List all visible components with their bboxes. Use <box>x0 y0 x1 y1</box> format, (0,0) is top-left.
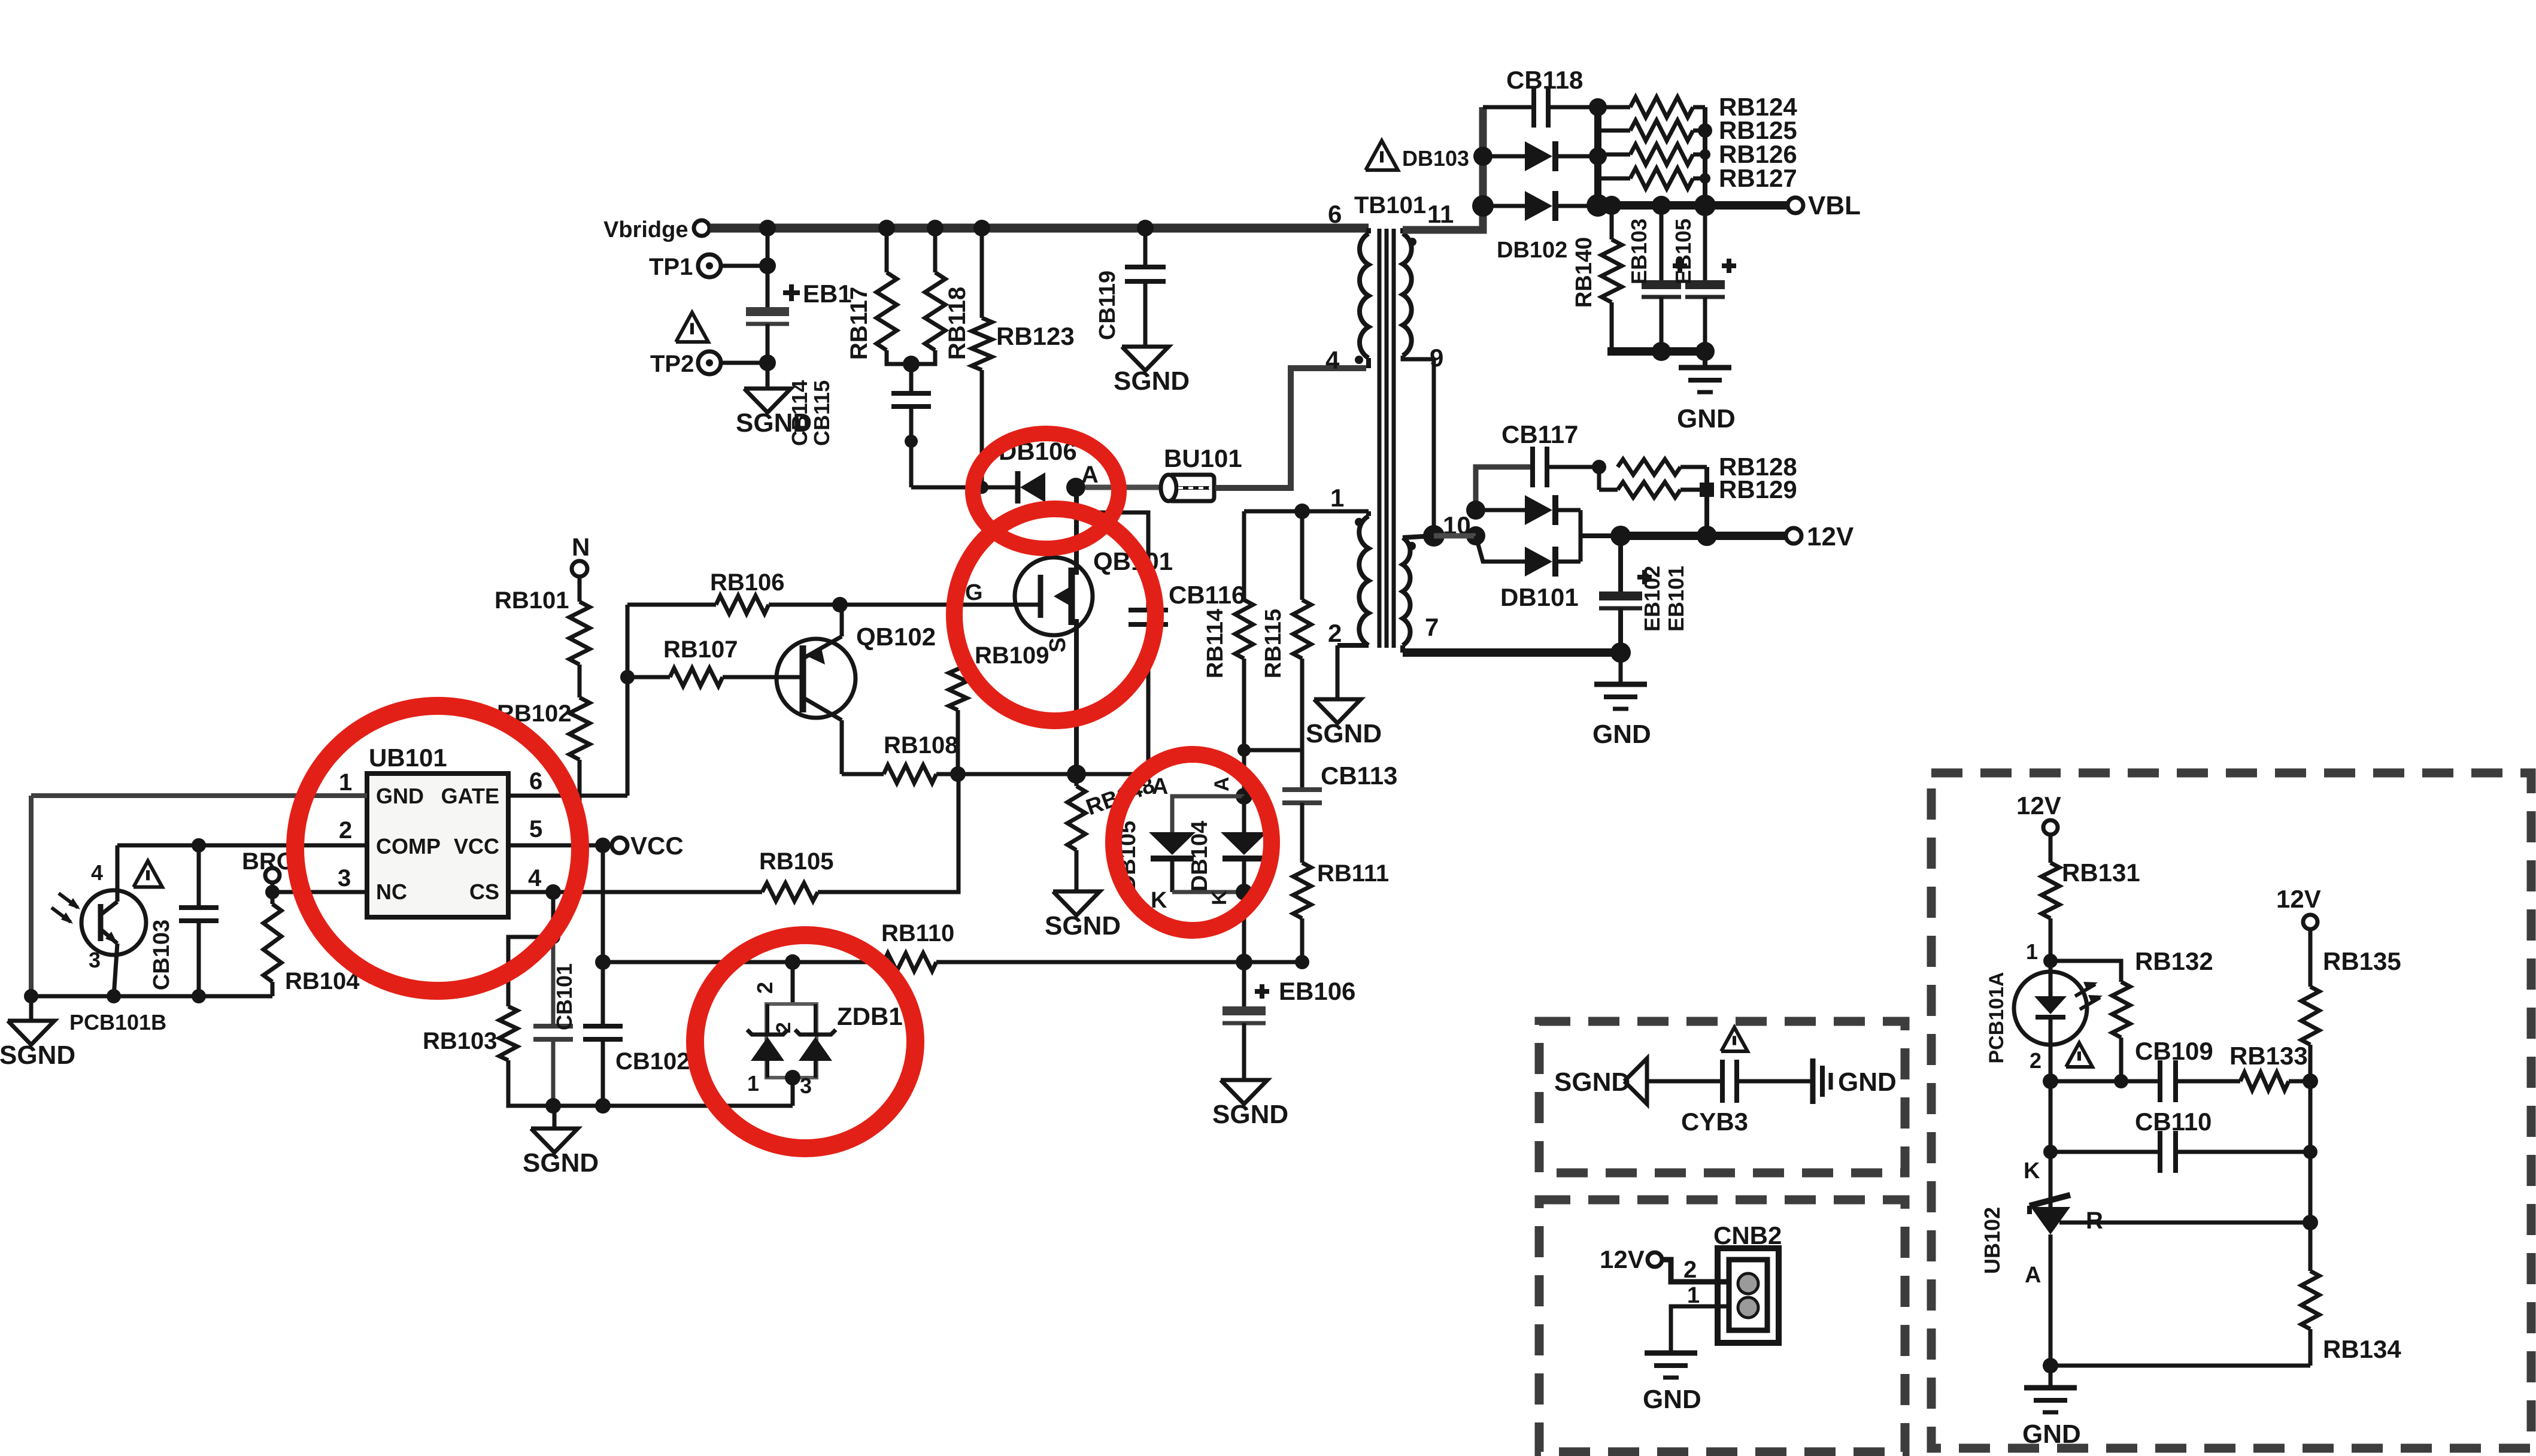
resistor RB126 <box>1598 153 1630 157</box>
wire RB114/115 bottoms <box>1244 748 1302 753</box>
wire pin 2 to SGND <box>1336 645 1340 699</box>
svg-text:NC: NC <box>376 879 407 904</box>
diode DB101 upper <box>1476 508 1525 512</box>
junction PCB101A pin1 <box>2043 954 2058 968</box>
resistor RB128 <box>1618 459 1680 475</box>
capacitor CB103 <box>197 845 201 908</box>
resistor RB132 <box>2050 961 2121 982</box>
svg-text:CS: CS <box>469 879 499 904</box>
svg-text:2: 2 <box>1328 619 1342 647</box>
wire pin 9 to pin 10 node <box>1432 359 1436 536</box>
resistor RB110 <box>603 960 884 964</box>
svg-text:CB119: CB119 <box>1095 271 1120 340</box>
svg-text:1: 1 <box>1330 484 1344 512</box>
wire to CB114/CB115 <box>909 364 914 393</box>
wire main HV bus <box>710 224 1369 233</box>
wire QB101 source <box>1074 619 1079 774</box>
capacitor CB119 <box>1143 228 1148 267</box>
svg-text:DB103: DB103 <box>1402 146 1469 171</box>
svg-text:RB106: RB106 <box>710 569 785 596</box>
junction VCC <box>595 838 611 853</box>
capacitor CB117 <box>1476 467 1533 510</box>
junction DB101 anode a <box>1466 500 1485 520</box>
capacitor CB102 <box>601 962 605 1026</box>
resistor RB102 <box>578 665 582 697</box>
resistor RB103 <box>499 1006 517 1060</box>
junction CB103 bottom <box>192 989 206 1003</box>
wire pin 11 riser <box>1403 107 1483 230</box>
resistor RB107 <box>627 675 670 680</box>
resistor RB104 <box>271 892 275 904</box>
svg-text:EB106: EB106 <box>1279 977 1355 1005</box>
resistor RB109 <box>956 605 960 661</box>
wire VCC rail down <box>601 845 605 962</box>
svg-text:RB132: RB132 <box>2135 947 2213 975</box>
junction RB132 bottom <box>2114 1074 2128 1088</box>
svg-text:GND: GND <box>1677 404 1736 433</box>
ground SGND below RB148 <box>1053 891 1100 915</box>
svg-text:CNB2: CNB2 <box>1713 1221 1782 1249</box>
svg-text:RB127: RB127 <box>1719 164 1797 192</box>
svg-text:K: K <box>2024 1158 2040 1184</box>
svg-text:Vbridge: Vbridge <box>603 217 688 242</box>
junction DB103 anode <box>1473 147 1493 166</box>
junction PCB101A cathode node <box>2043 1073 2058 1089</box>
wire RB124-127 right rail <box>1703 107 1707 205</box>
wire CB115 to DB106 cathode <box>909 407 914 441</box>
node A of DB104 <box>1242 750 1246 796</box>
wire RB110 to EB106 node <box>936 960 1244 964</box>
svg-text:TB101: TB101 <box>1354 192 1426 219</box>
junction feedback ground <box>2043 1358 2058 1373</box>
svg-text:SGND: SGND <box>1554 1067 1630 1097</box>
mosfet QB101 (N-channel) <box>1015 557 1093 635</box>
svg-text:RB107: RB107 <box>663 636 738 663</box>
junction CB101 bottom <box>545 1098 561 1114</box>
svg-text:RB103: RB103 <box>423 1028 498 1054</box>
svg-text:EB1: EB1 <box>803 280 852 308</box>
svg-text:RB133: RB133 <box>2229 1042 2308 1070</box>
junction RB117/RB118 bottom <box>903 356 920 372</box>
warning triangle PCB101A <box>2066 1043 2092 1067</box>
ground GND below EB105 <box>1703 351 1707 368</box>
svg-text:K: K <box>1208 890 1231 905</box>
junction BRO <box>265 885 280 899</box>
red highlight circle around QB101 <box>954 509 1155 721</box>
svg-text:DB104: DB104 <box>1187 821 1212 891</box>
resistor RB131 <box>2049 835 2053 863</box>
svg-text:A: A <box>1211 776 1233 791</box>
svg-text:CB103: CB103 <box>149 920 174 990</box>
capacitor CB116 <box>1076 512 1148 610</box>
warning triangle near TP2 <box>676 313 708 342</box>
svg-text:7: 7 <box>1425 613 1439 641</box>
resistor RB124 <box>1598 105 1630 110</box>
svg-text:ZDB1: ZDB1 <box>837 1002 903 1030</box>
ground SGND below EB1 <box>744 389 791 412</box>
junction QB101 source node <box>1067 765 1086 784</box>
svg-text:5: 5 <box>529 816 542 842</box>
junction CS lower <box>546 930 560 944</box>
junction RB115 top <box>1294 503 1310 519</box>
resistor RB106 <box>627 603 716 607</box>
junction GND rail left <box>24 989 38 1003</box>
svg-text:CYB3: CYB3 <box>1681 1108 1748 1136</box>
resistor RB125 <box>1598 129 1630 133</box>
resistor RB114 <box>1242 511 1246 600</box>
junction CB103 top <box>192 838 206 853</box>
red highlight circle around UB101 <box>295 706 580 991</box>
junction RB114 bottom rail <box>1237 744 1251 757</box>
wire QB101 drain to node A <box>1074 487 1079 575</box>
svg-text:DB102: DB102 <box>1497 238 1567 263</box>
resistor RB135 <box>2309 929 2313 987</box>
resistor RB127 <box>1598 177 1630 181</box>
resistor RB134 <box>2309 1223 2313 1271</box>
transformer TB101 secondary winding 10-7 <box>1403 536 1434 538</box>
svg-text:1: 1 <box>339 769 352 796</box>
svg-text:EB105: EB105 <box>1671 219 1695 284</box>
dashed box CNB2 section <box>1539 1200 1905 1452</box>
svg-text:RB104: RB104 <box>285 968 360 994</box>
warning triangle near PCB101B <box>134 861 162 887</box>
node VBL terminal <box>1788 198 1803 213</box>
wire DB101 cathode bracket <box>1555 508 1581 512</box>
svg-text:CB109: CB109 <box>2135 1037 2213 1065</box>
junction pin 10 node <box>1423 525 1445 547</box>
svg-text:CB110: CB110 <box>2135 1108 2212 1136</box>
resistor RB108 <box>842 772 884 776</box>
ground GND below EB102 <box>1619 653 1623 684</box>
capacitor CB109 <box>2158 1060 2162 1102</box>
svg-text:TP1: TP1 <box>649 254 693 280</box>
capacitor CB110 <box>2049 1081 2053 1152</box>
wire EB1 vertical branch <box>766 228 770 307</box>
svg-text:S: S <box>1045 638 1070 653</box>
wire UB101 pin2 COMP net <box>117 844 367 848</box>
wire TP2 branch <box>722 361 768 365</box>
junction RB128 left <box>1592 460 1606 474</box>
svg-text:4: 4 <box>1325 346 1340 374</box>
wire gate riser <box>626 605 630 796</box>
junction RB102 bottom at VCC line <box>572 838 587 853</box>
svg-text:VCC: VCC <box>454 834 499 859</box>
svg-text:12V: 12V <box>2276 885 2321 913</box>
node TP2 test point <box>698 351 721 374</box>
ground GND feedback <box>2049 1366 2053 1388</box>
svg-text:12V: 12V <box>1600 1245 1645 1273</box>
svg-text:CB101: CB101 <box>552 963 577 1030</box>
svg-text:EB103: EB103 <box>1627 219 1651 284</box>
junction TP1 <box>759 257 776 274</box>
svg-text:CB116: CB116 <box>1169 581 1245 609</box>
wire SGND rail under IC <box>553 1104 793 1108</box>
svg-text:EB101: EB101 <box>1664 566 1688 632</box>
ground GND in CNB2 box <box>1645 1351 1697 1356</box>
svg-text:3: 3 <box>800 1073 812 1098</box>
wire BU101 to transformer pin 4 <box>1215 368 1366 488</box>
resistor RB118 <box>933 228 938 272</box>
junction CB102 bottom <box>595 1098 611 1114</box>
svg-text:4: 4 <box>91 860 103 885</box>
wire CS branch to RB103 <box>508 937 553 1006</box>
svg-text:RB108: RB108 <box>884 732 958 759</box>
svg-text:RB114: RB114 <box>1203 609 1228 678</box>
junction EB102 ground <box>1610 642 1631 663</box>
ground SGND below pin 2 <box>1314 699 1361 723</box>
resistor RB148 <box>1075 774 1079 786</box>
warning triangle DB103 <box>1366 141 1398 170</box>
wire VBL filter ground rail <box>1607 347 1710 356</box>
wire 12V output <box>1621 532 1786 540</box>
capacitor CB118 <box>1483 105 1534 110</box>
svg-text:SGND: SGND <box>523 1148 599 1178</box>
svg-text:CB117: CB117 <box>1501 420 1578 448</box>
svg-text:CB115: CB115 <box>809 380 834 446</box>
svg-text:RB129: RB129 <box>1719 475 1797 503</box>
diode DB104 <box>1242 796 1246 832</box>
junction UB102 ref node <box>2303 1215 2318 1230</box>
resistor RB117 <box>885 228 889 272</box>
red highlight circle around ZDB1 <box>695 935 915 1148</box>
resistor RB101 <box>569 602 590 665</box>
junction DB104 cathode <box>1236 884 1252 900</box>
wire UB101 pin5 VCC net <box>508 844 605 848</box>
junction TP2 <box>759 354 776 371</box>
resistor RB133 <box>2240 1072 2289 1090</box>
svg-text:CB102: CB102 <box>615 1048 690 1075</box>
svg-text:GATE: GATE <box>441 784 499 808</box>
red highlight circle around DB104/DB105 <box>1114 754 1272 930</box>
PCB101A light arrows <box>2075 984 2095 996</box>
wire feedback bottom rail <box>2050 1364 2310 1368</box>
wire GND rail to SGND <box>31 994 272 999</box>
svg-text:VCC: VCC <box>630 832 684 860</box>
wire CS to CB101 <box>551 892 556 937</box>
wire cathode node line <box>2050 1079 2160 1084</box>
ground SGND below CB101 <box>553 1106 557 1129</box>
junction RB123-DB106 wire <box>975 481 988 494</box>
svg-text:SGND: SGND <box>0 1041 75 1070</box>
svg-text:CB118: CB118 <box>1506 66 1583 94</box>
diode DB103 <box>1483 154 1525 159</box>
svg-text:2: 2 <box>1683 1257 1697 1283</box>
junction bus-EB1 <box>759 220 776 236</box>
wire TP1 to bus branch <box>722 264 768 268</box>
junction RB118 top <box>927 220 944 236</box>
wire DB104 to EB106 node <box>1242 892 1246 962</box>
svg-text:A: A <box>2025 1263 2041 1288</box>
svg-text:12V: 12V <box>1807 522 1854 551</box>
wire UB101 pin4 CS net <box>508 890 553 894</box>
warning triangle CYB3 <box>1721 1027 1748 1051</box>
svg-text:RB115: RB115 <box>1261 609 1286 678</box>
node Vbridge terminal <box>694 220 709 236</box>
wire RB105 to source node <box>818 774 958 892</box>
capacitor CB101 <box>551 937 556 1026</box>
svg-text:2: 2 <box>339 817 352 844</box>
transformer TB101 aux winding 1-2 <box>1366 511 1371 516</box>
svg-text:PCB101B: PCB101B <box>69 1010 166 1035</box>
diode DB106 <box>1015 471 1021 503</box>
capacitor EB1 (polarized) <box>746 307 789 316</box>
svg-text:UB102: UB102 <box>1980 1207 2004 1274</box>
svg-text:QB102: QB102 <box>856 623 936 651</box>
node TP1 test point <box>698 254 721 277</box>
svg-text:GND: GND <box>1838 1067 1897 1097</box>
svg-text:RB123: RB123 <box>996 322 1075 350</box>
diode DB102 <box>1483 204 1525 208</box>
junction DB101 anode b <box>1466 526 1485 545</box>
wire VBL output <box>1598 201 1788 210</box>
svg-text:PCB101A: PCB101A <box>1985 972 2008 1063</box>
resistor RB111 <box>1293 863 1311 918</box>
svg-text:4: 4 <box>528 865 542 891</box>
svg-text:2: 2 <box>753 982 777 994</box>
junction gate node QB102 emitter <box>832 597 848 612</box>
junction RB111 bottom <box>1244 960 1302 964</box>
svg-text:G: G <box>965 580 983 605</box>
dashed box feedback section <box>1931 773 2531 1448</box>
junction RB108/RB109/RB105 node <box>950 766 966 782</box>
svg-text:SGND: SGND <box>1045 911 1121 941</box>
junction CS node <box>545 884 561 900</box>
optocoupler LED PCB101A <box>2014 972 2087 1045</box>
svg-text:DB101: DB101 <box>1500 583 1579 611</box>
svg-text:6: 6 <box>1328 200 1342 228</box>
svg-text:A: A <box>1152 774 1168 799</box>
wire rectifier cathode rail <box>1594 103 1601 206</box>
svg-text:GND: GND <box>1592 720 1651 749</box>
svg-text:CB114: CB114 <box>787 380 812 446</box>
transformer TB101 secondary winding 11-9 <box>1400 228 1405 233</box>
junction RB110 left <box>595 954 611 970</box>
resistor RB140 <box>1610 205 1614 239</box>
junction RB107 tap <box>620 670 635 684</box>
svg-text:SGND: SGND <box>1114 366 1190 396</box>
wire ZDB1 to ground rail <box>791 1078 795 1106</box>
dashed box CYB3 section <box>1539 1021 1905 1173</box>
svg-text:1: 1 <box>747 1071 759 1096</box>
wire UB101 pin1 GND net <box>31 793 367 798</box>
inductor BU101 ferrite bead <box>1085 485 1163 490</box>
svg-text:N: N <box>572 533 590 561</box>
junction RB117 top <box>878 220 895 236</box>
svg-text:GND: GND <box>2022 1419 2081 1449</box>
svg-text:TP2: TP2 <box>650 351 694 377</box>
junction PCB101B emitter <box>107 989 121 1003</box>
junction RB133/RB135 node <box>2303 1073 2318 1089</box>
svg-text:CB113: CB113 <box>1321 762 1397 790</box>
svg-text:2: 2 <box>772 1022 795 1033</box>
svg-text:6: 6 <box>529 768 542 794</box>
node A junction at DB106 anode <box>1066 478 1085 497</box>
node 12V terminal <box>1786 528 1801 544</box>
capacitor CYB3 <box>1720 1060 1725 1103</box>
svg-text:RB140: RB140 <box>1572 237 1597 308</box>
svg-text:RB101: RB101 <box>495 587 569 614</box>
svg-text:RB118: RB118 <box>944 287 970 360</box>
junction CB119 top <box>1137 220 1154 236</box>
transformer TB101 core <box>1378 229 1382 648</box>
svg-text:RB131: RB131 <box>2062 859 2140 887</box>
ground SGND far left <box>29 996 34 1021</box>
svg-text:11: 11 <box>1427 200 1454 228</box>
svg-text:SGND: SGND <box>1212 1100 1288 1129</box>
junction RB123 top <box>973 220 990 236</box>
svg-text:GND: GND <box>1643 1385 1701 1414</box>
ground SGND below CB119 <box>1122 347 1169 371</box>
wire UB101 pin3 net with BRO <box>272 890 367 894</box>
wire source node to CB116 <box>958 772 1148 776</box>
svg-text:RB134: RB134 <box>2323 1335 2401 1363</box>
svg-text:EB102: EB102 <box>1640 566 1664 632</box>
red highlight circle around DB106 <box>973 433 1119 548</box>
wire RB135 rail down <box>2309 1081 2313 1223</box>
transformer TB101 primary winding 6-4 <box>1366 228 1371 233</box>
svg-text:BU101: BU101 <box>1164 444 1242 472</box>
wire pin 7 ground rail <box>1403 648 1621 657</box>
svg-text:RB109: RB109 <box>975 642 1049 669</box>
wire EB1 to ground <box>766 324 770 389</box>
capacitor CB113 <box>1300 750 1305 790</box>
resistor RB115 <box>1300 511 1305 600</box>
svg-text:COMP: COMP <box>376 834 441 859</box>
junction EB106 node <box>1236 954 1252 970</box>
svg-text:UB101: UB101 <box>369 744 447 772</box>
svg-text:RB135: RB135 <box>2323 947 2401 975</box>
op-amp U1 PWM controller UB101 body <box>367 773 508 917</box>
svg-text:RB110: RB110 <box>881 920 954 947</box>
junction ZDB1 bottom <box>785 1070 800 1085</box>
capacitor EB106 (polarized) <box>1242 962 1246 1006</box>
capacitor EB105 (polarized) <box>1703 205 1707 280</box>
PCB101B light arrows <box>59 893 78 908</box>
CNB2 pin 2 wire <box>1662 1260 1729 1282</box>
wire pin 1 net <box>1244 509 1369 514</box>
capacitor EB102 EB101 (polarized) <box>1618 536 1623 591</box>
svg-text:1: 1 <box>2026 939 2038 964</box>
wire CB119 to SGND <box>1143 281 1148 347</box>
wire RB128/129 right rail <box>1704 467 1709 536</box>
svg-text:12V: 12V <box>2016 791 2061 820</box>
svg-text:VBL: VBL <box>1808 191 1861 220</box>
ground SGND below EB106 <box>1221 1080 1267 1104</box>
diode DB101 lower <box>1476 536 1525 562</box>
wire gate node to MOSFET <box>840 603 1040 607</box>
svg-text:RB117: RB117 <box>846 287 872 360</box>
svg-text:SGND: SGND <box>1306 719 1382 748</box>
wire pin10 to DB101 <box>1434 533 1476 539</box>
wire GATE net from UB101 pin 6 <box>508 794 627 798</box>
junction DB102 anode <box>1472 195 1494 217</box>
transistor QB102 (PNP) <box>776 639 856 718</box>
optocoupler PCB101B <box>81 890 146 955</box>
capacitor CB114 CB115 <box>891 391 931 396</box>
svg-text:GND: GND <box>376 784 424 808</box>
ground GND sideways in CYB3 box <box>1810 1058 1816 1104</box>
resistor RB123 <box>980 228 984 318</box>
diode DB105 <box>1172 796 1244 832</box>
capacitor EB103 (polarized) <box>1660 205 1664 280</box>
zener ZDB1 dual <box>791 962 795 1004</box>
svg-text:RB111: RB111 <box>1317 860 1389 887</box>
svg-text:3: 3 <box>89 948 101 972</box>
node VCC terminal <box>612 838 627 853</box>
junction ZDB1 top <box>785 954 800 970</box>
svg-text:RB105: RB105 <box>759 848 834 875</box>
svg-text:3: 3 <box>338 865 351 891</box>
